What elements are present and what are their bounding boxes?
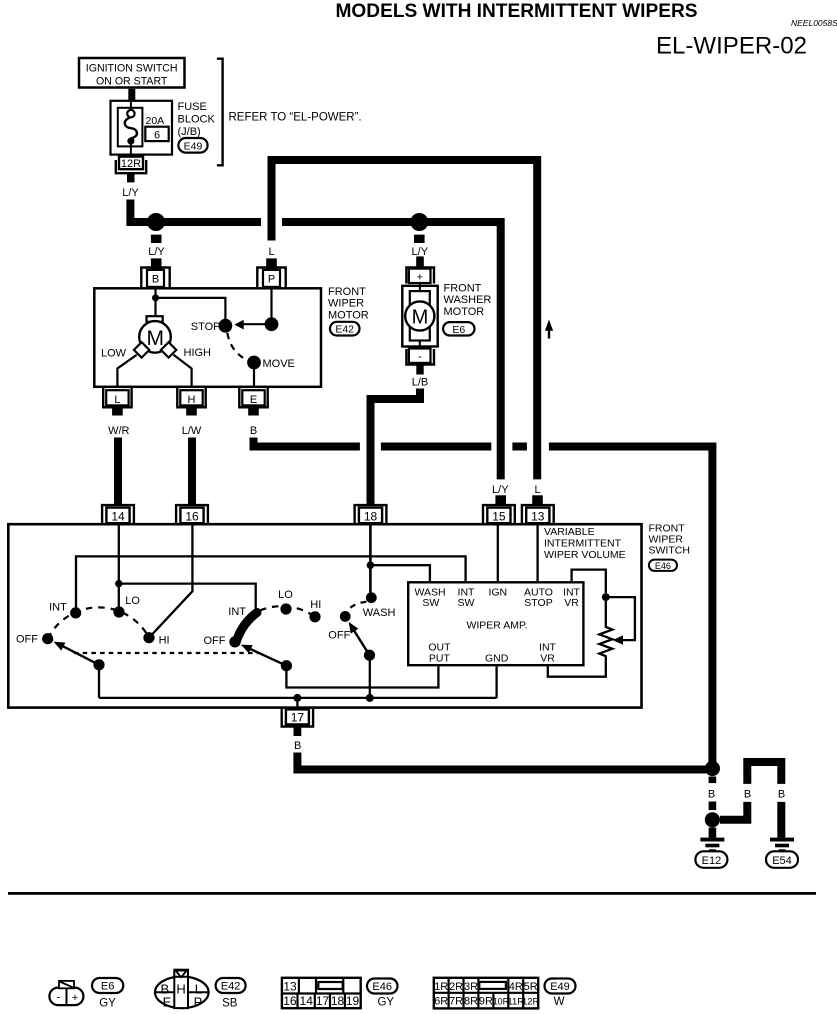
wire pin 18 into switch (369, 524, 372, 593)
svg-text:INT: INT (49, 602, 67, 614)
svg-text:L/Y: L/Y (412, 246, 429, 258)
svg-text:HIGH: HIGH (184, 347, 212, 359)
ground symbol E54 (770, 838, 794, 853)
ground name E12 oval (695, 851, 727, 868)
svg-text:OFF: OFF (328, 630, 350, 642)
front washer motor symbol (402, 256, 437, 364)
mechanical link dashed (74, 652, 258, 654)
title MODELS WITH INTERMITTENT WIPERS (336, 1, 698, 22)
wire MOVE to E pin (253, 363, 255, 389)
wiper amp box (408, 582, 583, 665)
connector pin H (motor) (177, 388, 205, 407)
svg-text:+: + (72, 992, 78, 1004)
legend connector E6 face (49, 981, 83, 1005)
connector E6 oval (443, 322, 474, 336)
wire to amp WASH SW (370, 565, 430, 581)
svg-text:WIPER AMP.: WIPER AMP. (466, 619, 527, 631)
VR wiper loop arrow (606, 597, 635, 645)
wire B pin 17 to ground (294, 740, 706, 770)
junction dot E12 (705, 812, 720, 838)
svg-text:BLOCK: BLOCK (178, 114, 216, 126)
legend E42 oval (216, 978, 246, 1010)
svg-text:LO: LO (125, 595, 140, 607)
junction dot wash branch (367, 561, 375, 569)
svg-text:W: W (554, 996, 565, 1008)
motor M armature (139, 316, 171, 353)
svg-text:GY: GY (377, 997, 394, 1009)
svg-text:REFER TO “EL-POWER”.: REFER TO “EL-POWER”. (229, 111, 362, 123)
label FRONT WASHER MOTOR (444, 283, 492, 318)
wire B pin E to ground net (248, 408, 712, 766)
front wiper switch box (8, 524, 641, 707)
legend connector E46 face (282, 978, 361, 1008)
svg-text:E49: E49 (184, 140, 203, 152)
connector pin 16 (176, 505, 208, 524)
wire L/Y drop to washer motor (412, 235, 429, 269)
svg-text:P: P (268, 274, 275, 286)
separator rule (8, 892, 816, 895)
legend connector E42 face (155, 970, 209, 1010)
fuse 20A no.6 (118, 100, 169, 156)
fuse block label FUSE BLOCK (J/B) (178, 101, 216, 138)
svg-text:L/Y: L/Y (122, 187, 139, 199)
brush high (161, 342, 176, 357)
svg-text:4R: 4R (509, 981, 523, 993)
wire W/R pin L to 14 (108, 408, 129, 506)
svg-text:FRONT: FRONT (444, 283, 482, 295)
svg-text:L/B: L/B (412, 376, 429, 388)
svg-text:B: B (778, 789, 785, 801)
svg-text:STOP: STOP (524, 597, 552, 609)
svg-text:WIPER VOLUME: WIPER VOLUME (544, 549, 626, 561)
wire INT contact to amp INT SW (76, 556, 466, 610)
node P contact dot (265, 317, 279, 331)
svg-text:PUT: PUT (429, 652, 451, 664)
svg-text:NEEL0058S: NEEL0058S (791, 18, 837, 28)
svg-text:FRONT: FRONT (328, 286, 366, 298)
wire branch to gang2 INT (119, 584, 256, 610)
svg-text:9R: 9R (479, 996, 493, 1008)
svg-text:IGNITION SWITCH: IGNITION SWITCH (86, 63, 178, 75)
svg-text:B: B (250, 425, 257, 437)
gang1 dashed arc (48, 607, 149, 638)
svg-text:M: M (412, 307, 429, 329)
svg-text:B: B (294, 740, 301, 752)
connector pin 13 (522, 505, 554, 524)
svg-text:16: 16 (283, 994, 297, 1008)
svg-text:INTERMITTENT: INTERMITTENT (544, 538, 622, 550)
wire L/W pin H to 16 (182, 408, 202, 506)
svg-text:19: 19 (346, 994, 360, 1008)
wire gang3 pivot down (369, 655, 371, 698)
connector pin 18 (355, 505, 387, 524)
label VARIABLE INTERMITTENT WIPER VOLUME (544, 526, 626, 561)
bottom bus wire (99, 697, 497, 699)
connector E46 oval (649, 560, 677, 572)
variable resistor (548, 597, 613, 677)
junction dot VR top (602, 593, 610, 601)
svg-text:18: 18 (364, 509, 378, 523)
svg-text:B: B (708, 789, 715, 801)
wire gang2 pivot to amp OUT PUT (286, 666, 438, 688)
svg-text:2R: 2R (449, 981, 463, 993)
svg-text:B: B (152, 274, 159, 286)
svg-text:13: 13 (531, 509, 545, 523)
connector E49 oval (178, 138, 207, 153)
wire B to E12 ground (708, 777, 716, 811)
svg-text:H: H (188, 394, 196, 406)
svg-text:W/R: W/R (108, 425, 129, 437)
legend E49 oval (545, 979, 576, 1009)
svg-text:15: 15 (492, 509, 506, 523)
wire ignition to fuse (128, 89, 135, 101)
svg-text:P: P (194, 995, 203, 1010)
svg-text:VR: VR (540, 652, 555, 664)
svg-text:WASHER: WASHER (444, 294, 492, 306)
junction dot ground B (705, 761, 720, 776)
label FRONT WIPER SWITCH (649, 523, 690, 557)
wire L net: P pin up, across, down to pin 13 (272, 160, 538, 479)
svg-text:18: 18 (331, 994, 345, 1008)
svg-text:14: 14 (300, 994, 314, 1008)
svg-text:M: M (147, 327, 165, 350)
svg-text:LOW: LOW (101, 348, 127, 360)
arrow P to STOP (234, 320, 271, 330)
continuation arrow up (545, 320, 553, 339)
ground symbol E12 (700, 838, 724, 853)
label FRONT WIPER MOTOR (328, 286, 369, 321)
svg-text:-: - (418, 351, 422, 363)
svg-text:H: H (176, 982, 185, 997)
svg-text:E6: E6 (101, 981, 114, 993)
svg-text:E6: E6 (452, 324, 465, 336)
wire HIGH to H pin (174, 347, 212, 388)
doc number NEEL0058S (791, 18, 837, 28)
gang2 contacts (204, 589, 322, 648)
svg-text:ON OR START: ON OR START (96, 76, 168, 88)
svg-text:GY: GY (99, 998, 116, 1010)
gang2 wiper arm (241, 645, 292, 672)
wire pin 14 to LO contact (118, 524, 120, 608)
junction dot pin17 (293, 694, 301, 709)
svg-text:STOP: STOP (191, 321, 221, 333)
svg-text:HI: HI (159, 634, 170, 646)
svg-text:+: + (417, 271, 423, 283)
svg-text:E54: E54 (772, 855, 792, 867)
junction dot bus-washer (410, 213, 428, 231)
page id EL-WIPER-02 (656, 33, 807, 60)
svg-text:GND: GND (485, 652, 509, 664)
svg-text:MOTOR: MOTOR (328, 309, 369, 321)
node WASH contact (363, 592, 396, 619)
wire B pin internal (154, 287, 156, 316)
svg-text:13: 13 (283, 979, 297, 993)
svg-text:OFF: OFF (16, 633, 38, 645)
svg-text:6: 6 (154, 129, 160, 141)
svg-text:HI: HI (310, 599, 321, 611)
svg-text:12R: 12R (522, 997, 540, 1008)
svg-text:VR: VR (564, 597, 579, 609)
svg-text:17: 17 (316, 994, 330, 1008)
svg-text:L: L (268, 246, 274, 258)
connector pin E (motor) (239, 388, 267, 407)
svg-text:L/W: L/W (182, 425, 202, 437)
svg-text:(J/B): (J/B) (178, 126, 201, 138)
wire pin 13 to amp AUTO STOP (536, 525, 538, 581)
svg-text:17: 17 (291, 711, 305, 725)
connector pin 17 (282, 708, 313, 736)
node MOVE (247, 356, 295, 370)
svg-text:SW: SW (458, 597, 475, 609)
svg-text:8R: 8R (464, 996, 478, 1008)
svg-text:5R: 5R (524, 981, 538, 993)
connector pin B (front wiper motor) (141, 268, 169, 288)
svg-text:-: - (57, 992, 61, 1004)
svg-text:WASH: WASH (363, 607, 396, 619)
connector pin 14 (102, 505, 134, 524)
svg-text:E12: E12 (702, 855, 722, 867)
svg-text:IGN: IGN (488, 586, 507, 598)
svg-text:1R: 1R (434, 981, 448, 993)
svg-text:L/Y: L/Y (148, 246, 165, 258)
dashed arc WASH to OFF (347, 602, 366, 612)
svg-text:MODELS WITH INTERMITTENT WIPER: MODELS WITH INTERMITTENT WIPERS (336, 1, 698, 22)
wire L/Y bus horizontal (152, 222, 501, 479)
svg-text:12R: 12R (121, 158, 141, 170)
legend E6 oval (92, 978, 123, 1010)
svg-text:SB: SB (222, 998, 238, 1010)
dashed arc STOP to MOVE (227, 333, 247, 360)
junction dot gang3 (366, 694, 374, 702)
svg-text:L: L (534, 484, 540, 496)
legend connector E49 face (434, 978, 540, 1009)
svg-text:E42: E42 (335, 324, 354, 336)
gang2 dashed arc (260, 606, 315, 617)
svg-text:6R: 6R (434, 996, 448, 1008)
wire amp GND down (495, 667, 497, 698)
svg-text:20A: 20A (146, 115, 165, 127)
svg-text:E: E (250, 394, 257, 406)
node STOP (191, 319, 233, 333)
legend E46 oval (367, 979, 398, 1009)
svg-text:FUSE: FUSE (178, 101, 207, 113)
svg-text:E42: E42 (221, 981, 241, 993)
svg-text:E: E (163, 995, 172, 1010)
wire pin 16 to HI contact (150, 524, 193, 637)
svg-text:E49: E49 (550, 981, 570, 993)
svg-text:EL-WIPER-02: EL-WIPER-02 (656, 33, 807, 60)
wire B to STOP contact (156, 298, 226, 319)
front wiper motor box (94, 288, 321, 387)
wire L/B washer to pin 18 (371, 364, 429, 506)
wire L label at pin 13 (532, 484, 543, 504)
svg-text:B: B (744, 789, 751, 801)
svg-text:OFF: OFF (204, 635, 226, 647)
brush low (134, 342, 149, 357)
connector pin P (front wiper motor) (257, 268, 285, 288)
node wash OFF contact (328, 611, 350, 642)
junction dot motor B (152, 294, 159, 301)
wire L/Y fuse to bus (122, 187, 156, 222)
svg-text:SWITCH: SWITCH (649, 545, 690, 557)
gang1 contacts OFF INT LO HI (16, 595, 170, 646)
svg-text:E46: E46 (372, 981, 392, 993)
note REFER TO EL-POWER (229, 111, 362, 123)
svg-text:MOTOR: MOTOR (444, 306, 485, 318)
ground name E54 oval (766, 851, 798, 868)
fuse block box (111, 101, 173, 155)
svg-text:WIPER: WIPER (328, 298, 364, 310)
gang2 blade INT position (236, 613, 257, 643)
ignition switch box (79, 58, 185, 88)
wire gang1 pivot down (98, 665, 100, 698)
svg-text:7R: 7R (449, 996, 463, 1008)
svg-text:16: 16 (185, 509, 199, 523)
gang1 wiper arm (54, 642, 105, 671)
svg-text:3R: 3R (464, 981, 478, 993)
wire B jumper to E54 (720, 762, 785, 838)
svg-text:LO: LO (278, 589, 293, 601)
svg-text:INT: INT (228, 606, 246, 618)
junction dot pin14 branch (115, 580, 122, 587)
svg-text:L: L (114, 394, 120, 406)
wire P pin internal (270, 287, 272, 318)
connector E42 oval (330, 322, 360, 336)
bracket fuse block (217, 59, 223, 166)
wire L/Y label at pin 15 (492, 484, 509, 504)
gang3 wiper arm (349, 622, 375, 661)
wire L/Y drop to B pin (148, 235, 165, 270)
svg-text:MOVE: MOVE (263, 358, 295, 370)
svg-text:14: 14 (111, 509, 125, 523)
wire LOW to L pin (101, 348, 137, 389)
wire L label and stub at P pin (266, 246, 277, 270)
connector pin 15 (483, 505, 515, 524)
svg-text:E46: E46 (655, 561, 671, 571)
connector 12R (116, 157, 146, 183)
svg-text:SW: SW (422, 597, 439, 609)
junction dot bus-B (147, 213, 165, 231)
wire pin 15 to amp IGN (497, 525, 499, 581)
connector pin L (motor) (103, 388, 131, 407)
svg-text:L/Y: L/Y (492, 484, 509, 496)
wire amp INT VR top to resistor (572, 570, 606, 593)
svg-text:VARIABLE: VARIABLE (544, 526, 595, 538)
